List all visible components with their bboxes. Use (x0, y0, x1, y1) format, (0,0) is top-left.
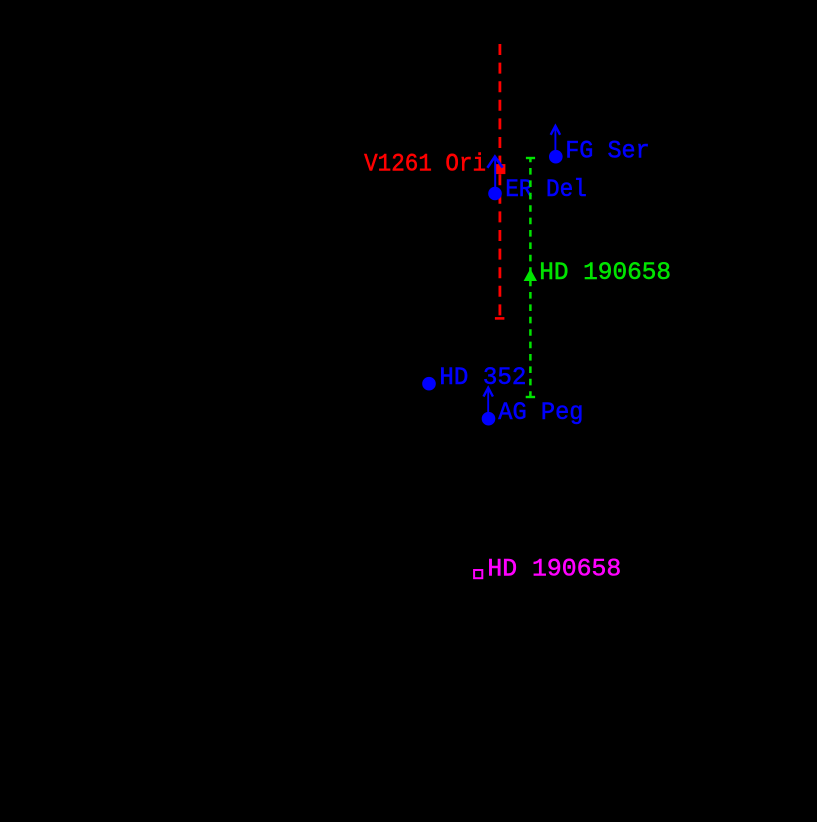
green triangle marker HD 190658 (524, 269, 537, 281)
svg-text:AG Peg: AG Peg (498, 398, 583, 427)
blue dot HD 352 (422, 377, 436, 391)
svg-text:HD 190658: HD 190658 (487, 555, 621, 584)
svg-text:ER Del: ER Del (505, 175, 587, 204)
svg-text:HD 352: HD 352 (439, 363, 526, 392)
svg-text:HD 190658: HD 190658 (539, 258, 671, 287)
svg-text:FG Ser: FG Ser (565, 137, 650, 166)
blue dot ER Del (488, 187, 502, 201)
blue dot FG Ser (549, 150, 563, 164)
red dashed error bar (V1261 Ori) (495, 44, 505, 318)
blue dot AG Peg (482, 412, 496, 426)
blue up arrow FG Ser (551, 126, 560, 157)
blue up arrow ER Del (487, 157, 502, 194)
magenta open square HD 190658 (474, 570, 482, 578)
red square marker V1261 Ori (496, 164, 506, 174)
green dashed error bar HD 190658 (526, 158, 535, 397)
blue up arrow AG Peg (484, 388, 493, 419)
svg-text:V1261 Ori: V1261 Ori (364, 150, 486, 179)
